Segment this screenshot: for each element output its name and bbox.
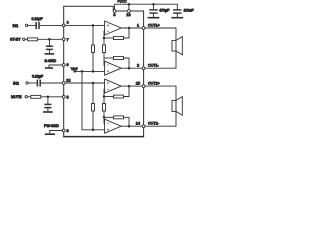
label OUT1+: [148, 23, 160, 27]
resistor R9 feedback C: [104, 86, 129, 98]
terminal MUTE: [11, 95, 27, 99]
capacitor C2: [46, 39, 53, 53]
svg-text:7: 7: [67, 38, 69, 42]
node pin12/R3 junction: [92, 82, 95, 85]
pin 14: [136, 122, 145, 128]
label OUT2+: [148, 81, 160, 85]
resistor R4: [103, 97, 106, 118]
wire pin4 to op-amp A: [65, 24, 105, 26]
wire pin1 to speaker LS1: [145, 28, 176, 40]
wire U1B inverting input: [103, 58, 106, 65]
pin 7: [62, 38, 68, 42]
svg-text:OUT1-: OUT1-: [148, 64, 160, 68]
wire C3 to pin12: [41, 82, 63, 84]
svg-text:PW-GND: PW-GND: [44, 124, 59, 128]
node U1A output junction: [128, 27, 131, 30]
wire U1B output to pin2: [121, 67, 142, 69]
wire pin2 to speaker LS1: [145, 51, 176, 68]
label PW-GND: [44, 124, 59, 128]
node A feedback junction: [103, 37, 106, 40]
ground for C4: [43, 111, 53, 113]
wire MUTE to R6: [27, 96, 30, 98]
op-amp U1D: [105, 119, 122, 133]
node VCC junction pin13 riser: [128, 3, 131, 10]
wire U1C output to pin15: [121, 85, 142, 87]
wire R5 to pin7: [38, 38, 63, 40]
pin 1: [137, 23, 145, 29]
ground for C5: [148, 17, 160, 19]
wire U1A inverting input: [103, 31, 106, 38]
node R1 bottom junction: [92, 70, 95, 73]
svg-text:100nF: 100nF: [184, 9, 194, 13]
wire pin12 to op-amp C: [65, 82, 105, 84]
label S-GND: [45, 59, 57, 63]
svg-text:5: 5: [67, 95, 69, 99]
resistor R7 feedback A: [104, 28, 129, 40]
pin 5: [62, 95, 68, 99]
node ST-BY/C2 junction: [48, 38, 51, 41]
label OUT1-: [148, 64, 160, 68]
wire C1 to pin4: [40, 24, 63, 26]
node C5 junction on rail: [152, 3, 155, 6]
svg-text:13: 13: [126, 13, 130, 17]
wire pin8 to ground: [50, 131, 63, 134]
pin 15: [136, 81, 145, 87]
svg-text:OUT1+: OUT1+: [148, 23, 160, 27]
wire IN2 to C3: [28, 82, 36, 84]
svg-text:IN1: IN1: [13, 24, 19, 28]
svg-text:S-GND: S-GND: [45, 59, 57, 63]
wire ST-BY to R5: [25, 38, 28, 40]
svg-text:1: 1: [137, 23, 139, 27]
ground PW-GND: [45, 133, 55, 135]
node MUTE/C4 junction: [47, 96, 50, 99]
svg-text:2: 2: [137, 64, 139, 68]
svg-text:9: 9: [67, 63, 69, 67]
wire Vref distribution down: [82, 71, 105, 129]
terminal IN1: [13, 24, 28, 28]
speaker LS2: [172, 97, 182, 116]
wire U1C inverting input: [103, 89, 106, 96]
wire Vref to U1B noninverting input: [75, 70, 105, 72]
node R3 bottom junction: [92, 129, 95, 132]
wire VCC rail: [115, 4, 178, 10]
ground for C2: [45, 53, 55, 55]
net label +VCC: [117, 0, 127, 3]
pin 9: [62, 63, 68, 67]
terminal ST-BY: [10, 38, 25, 42]
svg-text:8: 8: [67, 129, 69, 133]
svg-text:12: 12: [66, 78, 70, 82]
op-amp U1B: [105, 61, 122, 75]
pin 3: [113, 10, 116, 17]
resistor R1: [92, 25, 95, 71]
resistor R10 feedback D: [104, 116, 129, 126]
svg-text:3: 3: [113, 13, 115, 17]
svg-text:4: 4: [67, 21, 69, 25]
wire U1D inverting input: [103, 117, 106, 123]
svg-text:470µF: 470µF: [159, 9, 169, 13]
node D feedback junction: [103, 116, 106, 119]
node pin4/R1 junction: [92, 24, 95, 27]
svg-text:+VCC: +VCC: [117, 0, 127, 3]
op-amp U1A: [105, 21, 122, 35]
svg-text:0.22µF: 0.22µF: [32, 17, 43, 21]
resistor R5: [28, 38, 38, 41]
node U1C output junction: [128, 85, 131, 88]
resistor R2: [103, 38, 106, 58]
wire pin14 to speaker LS2: [145, 111, 176, 126]
pin 12: [62, 78, 70, 84]
capacitor C5 470µF: [149, 4, 169, 17]
svg-text:IN2: IN2: [13, 81, 19, 85]
terminal IN2: [13, 81, 28, 85]
svg-text:0.22µF: 0.22µF: [32, 74, 43, 78]
svg-text:15: 15: [136, 81, 140, 85]
pin 4: [62, 21, 68, 27]
label OUT2-: [148, 122, 160, 126]
capacitor C4: [44, 97, 51, 112]
wire pin15 to speaker LS2: [145, 86, 176, 100]
wire U1D output to pin14: [121, 125, 142, 127]
wire R6 to pin5: [41, 96, 63, 98]
resistor R6: [31, 95, 41, 98]
svg-text:OUT2+: OUT2+: [148, 81, 160, 85]
wire U1A output to pin1: [121, 27, 142, 29]
node Vref: [71, 67, 77, 73]
ground for C6: [171, 17, 183, 19]
node Vref drop junction: [81, 70, 84, 73]
resistor R8 feedback B: [104, 57, 129, 69]
svg-text:ST-BY: ST-BY: [10, 38, 21, 42]
wire IN1 to C1: [28, 24, 36, 26]
node U1B output junction: [128, 67, 131, 70]
ground S-GND: [45, 67, 53, 69]
pin 2: [137, 64, 145, 70]
svg-text:Vref: Vref: [71, 67, 77, 71]
capacitor C3 0.22µF: [32, 74, 43, 86]
speaker LS1: [172, 37, 182, 55]
IC U1 outline: [63, 6, 144, 136]
node U1D output junction: [128, 125, 131, 128]
svg-text:14: 14: [136, 122, 140, 126]
svg-text:OUT2-: OUT2-: [148, 122, 160, 126]
pin 8: [62, 129, 68, 133]
node C feedback junction: [103, 95, 106, 98]
wire pin9 to ground: [49, 65, 62, 67]
pin 13: [126, 10, 130, 17]
op-amp U1C: [105, 79, 122, 93]
resistor R3: [92, 83, 95, 130]
svg-text:MUTE: MUTE: [11, 95, 22, 99]
capacitor C1 0.22µF: [32, 17, 43, 29]
capacitor C6 100nF: [173, 9, 193, 17]
